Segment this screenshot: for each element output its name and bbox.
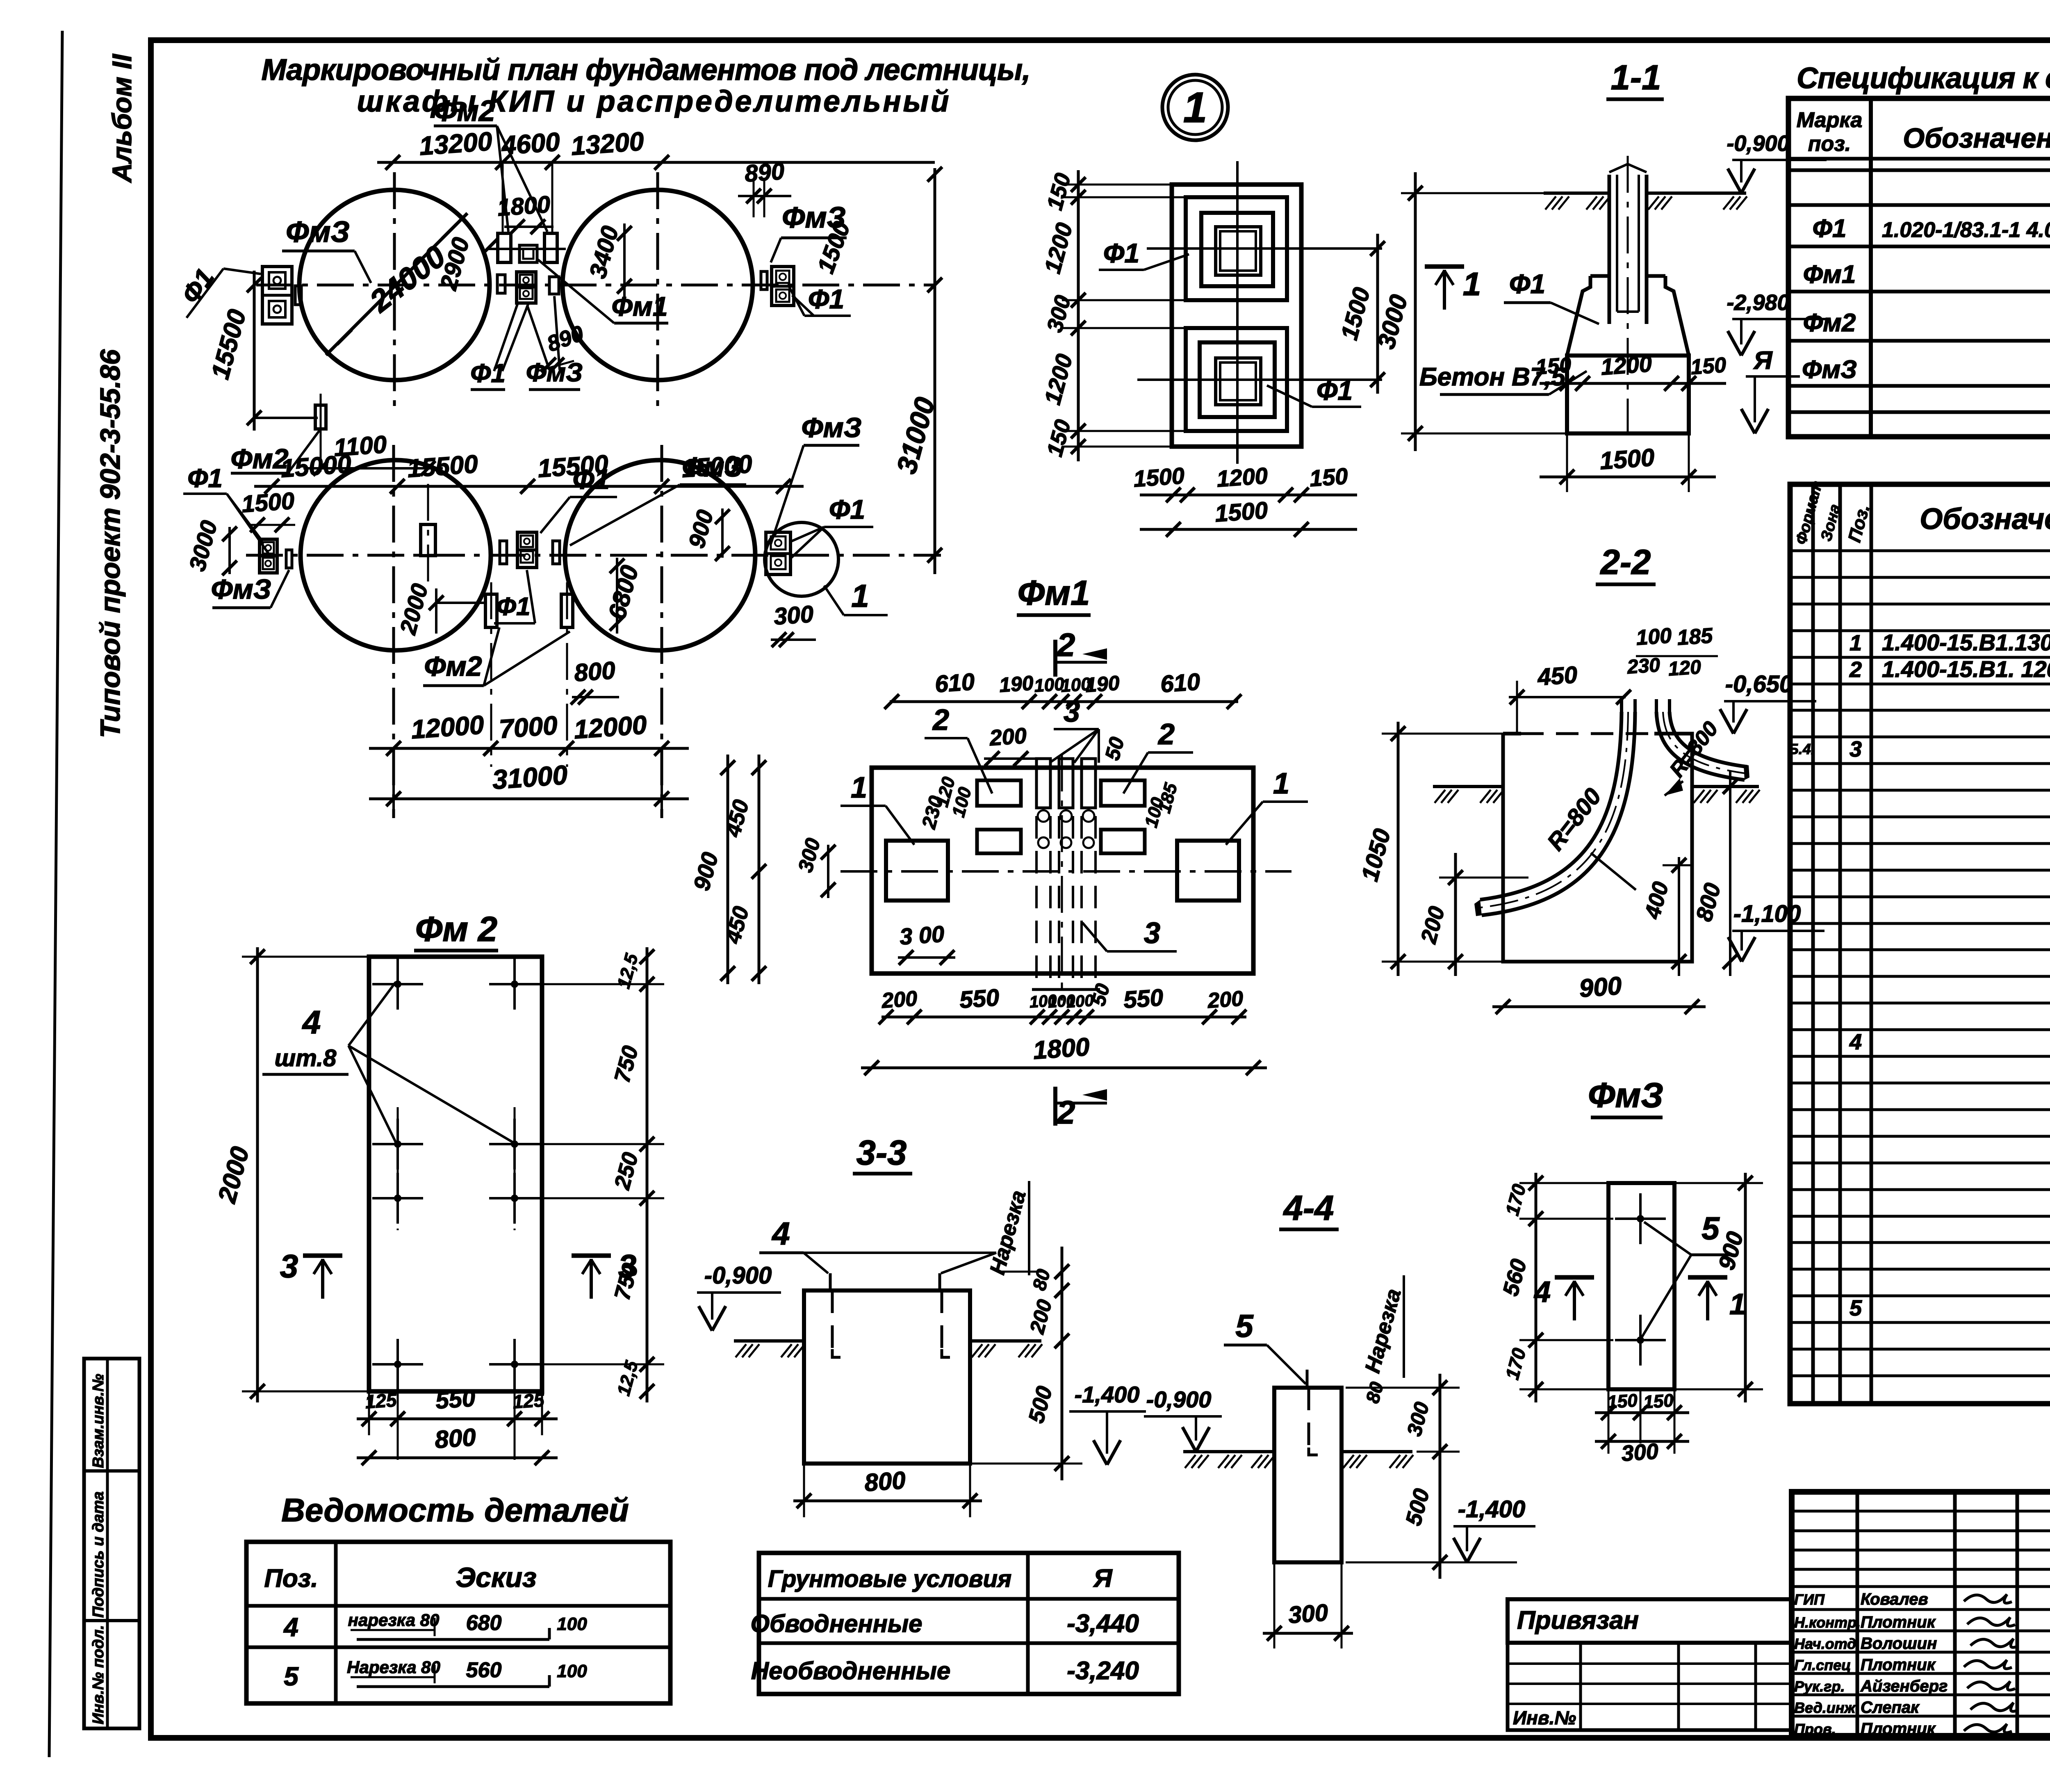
tank circle row2 left [301, 460, 491, 650]
svg-text:Гл.спец: Гл.спец [1794, 1657, 1851, 1673]
svg-text:-1,400: -1,400 [1458, 1496, 1525, 1523]
svg-text:Фм1: Фм1 [611, 291, 667, 321]
svg-text:120: 120 [1667, 656, 1702, 680]
1-1 bottom dim 1500 [1540, 476, 1716, 479]
svg-text:ФмЗ: ФмЗ [211, 574, 271, 605]
svg-text:ФмЗ: ФмЗ [1588, 1076, 1663, 1115]
margin table inv numbers [84, 1359, 139, 1728]
2-2 ground with hatch [1433, 785, 1503, 788]
Fm3 bottom dim 300 [1595, 1440, 1689, 1443]
1-1 bottom dim 150 1200 150 [1540, 382, 1726, 385]
svg-text:3 00: 3 00 [899, 921, 945, 949]
svg-text:3: 3 [1064, 695, 1080, 728]
svg-text:5: 5 [1701, 1210, 1720, 1246]
balloon 1 [1162, 75, 1228, 140]
centerline row2 horizontal [246, 554, 941, 557]
1-1 foundation slab [1567, 356, 1689, 433]
svg-text:1: 1 [851, 771, 867, 804]
svg-text:1: 1 [1273, 767, 1289, 800]
svg-text:1.400-15.В1.130-54: 1.400-15.В1.130-54 [1882, 629, 2050, 655]
svg-text:13200: 13200 [418, 126, 493, 161]
section mark 1 arrow left [1425, 264, 1464, 269]
svg-text:Ф1: Ф1 [187, 463, 223, 493]
detail circle 1 [765, 522, 838, 596]
svg-text:550: 550 [435, 1385, 476, 1414]
svg-text:Фм2: Фм2 [424, 651, 482, 682]
3-3 right dim chain [1061, 1247, 1064, 1480]
svg-text:800: 800 [863, 1466, 907, 1497]
svg-text:-0,650: -0,650 [1725, 671, 1793, 698]
spec table grid [1788, 98, 2050, 437]
plan1 outer rect [1172, 185, 1301, 447]
sheet edge line left [49, 31, 62, 1757]
svg-text:ФмЗ: ФмЗ [526, 358, 583, 387]
svg-text:-0,900: -0,900 [1727, 131, 1789, 156]
4-4 anchor bolt dashed [1307, 1388, 1310, 1448]
Fm1 right anchor square [1177, 841, 1239, 901]
svg-text:1800: 1800 [1032, 1033, 1090, 1065]
svg-text:ГИП: ГИП [1794, 1591, 1825, 1608]
svg-text:3: 3 [280, 1248, 298, 1284]
svg-text:300: 300 [1287, 1599, 1329, 1629]
svg-text:2-2: 2-2 [1600, 543, 1651, 582]
4-4 right dim chain [1439, 1374, 1442, 1579]
svg-text:Марка: Марка [1797, 108, 1863, 132]
svg-text:поз.: поз. [1808, 132, 1851, 156]
svg-text:ФмЗ: ФмЗ [801, 412, 861, 443]
svg-text:4600: 4600 [500, 127, 561, 160]
svg-text:2: 2 [1849, 657, 1862, 682]
Fm3 section marks [1555, 1275, 1594, 1280]
4-4 bottom dim 300 [1263, 1632, 1353, 1635]
Fm3 right dim 900 [1744, 1173, 1747, 1402]
svg-text:15500: 15500 [537, 450, 609, 483]
3-3 ground with hatch [734, 1339, 804, 1343]
svg-text:100: 100 [1635, 624, 1673, 650]
2-2 left dim 1050 [1397, 722, 1400, 976]
svg-text:800: 800 [434, 1423, 477, 1454]
svg-text:Взам.инв.№: Взам.инв.№ [90, 1374, 107, 1468]
Fm1 left anchor square [886, 841, 948, 901]
svg-text:Нач.отд: Нач.отд [1794, 1635, 1856, 1652]
svg-text:1500: 1500 [1132, 463, 1185, 492]
svg-text:13200: 13200 [570, 126, 645, 161]
plan1 right dim 1500 [1376, 234, 1379, 394]
Fm1 small plates second row [977, 830, 1021, 853]
Fm2 bottom dims 125 550 125 [368, 1391, 370, 1435]
2-2 curved pipe left [1480, 712, 1622, 900]
svg-text:125: 125 [364, 1389, 398, 1412]
svg-text:Фм2: Фм2 [434, 95, 495, 128]
svg-text:2: 2 [1157, 718, 1175, 751]
svg-text:4: 4 [1533, 1276, 1551, 1309]
Fm1 vertical centerline [1061, 755, 1063, 1001]
svg-text:31000: 31000 [491, 759, 569, 795]
svg-text:Типовой проект 902-3-55.86: Типовой проект 902-3-55.86 [95, 349, 126, 738]
Fm1 horizontal centerline [840, 870, 1291, 873]
svg-text:450: 450 [1536, 661, 1578, 691]
svg-text:1: 1 [1729, 1288, 1746, 1321]
lone Fm2 rect above row2 left circle [421, 524, 435, 556]
Fm2 bottom dim 800 [357, 1457, 558, 1459]
svg-text:Привязан: Привязан [1517, 1606, 1639, 1635]
svg-text:шт.8: шт.8 [275, 1045, 337, 1072]
svg-text:12000: 12000 [410, 710, 485, 744]
Fm1 bottom dim chain 200 550 100 100 100 550 200 [881, 1016, 1246, 1019]
row2 bottom dim 12000 7000 12000 [369, 747, 689, 750]
svg-text:Я: Я [1753, 347, 1773, 375]
3-3 bottom dim 800 [793, 1500, 982, 1502]
centerline row1 verticals [393, 172, 396, 414]
svg-text:1: 1 [1850, 631, 1862, 655]
svg-text:150: 150 [1690, 353, 1727, 379]
svg-text:-3,440: -3,440 [1067, 1610, 1139, 1638]
svg-text:4-4: 4-4 [1283, 1189, 1334, 1228]
svg-text:Плотник: Плотник [1861, 1720, 1936, 1738]
Fm2 rectangle [369, 957, 542, 1391]
svg-text:125: 125 [512, 1389, 546, 1412]
3-3 anchor bolts dashed [831, 1290, 834, 1349]
Fm2 bolt crosses [372, 983, 423, 985]
plan1 upper square set F1 [1186, 197, 1287, 300]
vedomost table [246, 1542, 670, 1703]
svg-text:Нарезка 80: Нарезка 80 [347, 1657, 440, 1677]
Fm2 section marks 3 [303, 1254, 342, 1258]
row1 right foundation group [772, 267, 794, 306]
svg-text:Необводненные: Необводненные [751, 1657, 950, 1685]
svg-text:610: 610 [934, 668, 975, 698]
svg-text:2: 2 [1056, 1094, 1075, 1131]
svg-text:3: 3 [618, 1248, 637, 1284]
1-1 column pipe [1608, 175, 1611, 324]
svg-text:Спецификация к схеме расположе: Спецификация к схеме расположения фундам… [1797, 62, 2050, 95]
svg-text:-0,900: -0,900 [1146, 1386, 1212, 1412]
svg-text:-3,240: -3,240 [1067, 1657, 1139, 1685]
plan1 horizontal centerlines [1147, 247, 1382, 250]
dim 31000 vertical right [934, 168, 936, 574]
svg-text:ФмЗ: ФмЗ [286, 216, 350, 249]
row2 left foundation group [260, 539, 277, 573]
svg-text:100: 100 [557, 1661, 587, 1681]
svg-text:900: 900 [1578, 972, 1623, 1003]
svg-text:Ведомость деталей: Ведомость деталей [281, 1492, 629, 1528]
Fm1 center channels dashed [1036, 759, 1050, 808]
row1 cluster Fm1 double square [517, 272, 536, 303]
soil conditions table [759, 1553, 1179, 1694]
svg-text:300: 300 [1621, 1439, 1659, 1466]
svg-text:1-1: 1-1 [1611, 58, 1661, 97]
plan1 vertical centerline [1236, 161, 1239, 464]
title block outline [1792, 1492, 2050, 1736]
row2 bottom dim 31000 [369, 798, 689, 800]
svg-text:300: 300 [773, 601, 814, 630]
svg-text:150: 150 [1643, 1390, 1674, 1412]
svg-text:ФмЗ: ФмЗ [1802, 356, 1857, 384]
Fm3 bolt crosses [1615, 1217, 1666, 1220]
svg-text:5: 5 [284, 1662, 299, 1691]
svg-text:1.400-15.В1. 120-18: 1.400-15.В1. 120-18 [1882, 656, 2050, 682]
svg-text:3: 3 [1144, 917, 1160, 950]
centerline row2 verticals [392, 445, 395, 818]
svg-text:Н.контр.: Н.контр. [1794, 1614, 1861, 1631]
svg-text:Плотник: Плотник [1861, 1613, 1936, 1631]
svg-text:Фм2: Фм2 [1803, 309, 1856, 337]
Fm1 top dim chain 610 190 100 100 190 610 [890, 700, 1238, 703]
svg-text:4: 4 [302, 1004, 321, 1040]
svg-text:Фм1: Фм1 [1018, 574, 1090, 613]
Fm2 left dim 2000 [256, 947, 259, 1402]
dim row1 top 13200 4600 13200 [377, 161, 935, 164]
2-2 bottom dim 900 [1492, 1005, 1706, 1008]
tank circle row2 right [565, 460, 755, 650]
3-3 foundation rect [804, 1290, 970, 1464]
svg-text:Обозначение: Обозначение [1920, 503, 2050, 536]
svg-text:Ф1: Ф1 [1509, 269, 1545, 299]
svg-text:Альбом II: Альбом II [107, 53, 137, 183]
svg-text:190: 190 [998, 671, 1034, 697]
1-1 ground line with hatch [1544, 192, 1609, 195]
Fm3 rectangle [1608, 1183, 1674, 1389]
row2 right foundation group [766, 532, 790, 575]
svg-text:Вед.инж: Вед.инж [1794, 1699, 1856, 1716]
svg-text:100: 100 [557, 1614, 587, 1634]
svg-text:Я: Я [1093, 1564, 1113, 1593]
svg-text:800: 800 [573, 657, 616, 687]
svg-text:Пров.: Пров. [1794, 1721, 1836, 1737]
svg-text:Инв.№: Инв.№ [1513, 1707, 1576, 1728]
Fm1 bottom dim 1800 [861, 1067, 1267, 1069]
svg-text:3-3: 3-3 [856, 1133, 907, 1172]
svg-text:15000: 15000 [681, 450, 753, 483]
svg-text:2: 2 [932, 704, 949, 736]
svg-text:150: 150 [1309, 463, 1349, 491]
svg-text:230: 230 [1626, 654, 1661, 678]
svg-text:-0,900: -0,900 [704, 1262, 772, 1289]
svg-text:4: 4 [771, 1215, 790, 1252]
svg-text:2: 2 [1056, 627, 1075, 663]
svg-text:1800: 1800 [497, 191, 551, 221]
svg-text:нарезка 80: нарезка 80 [348, 1610, 440, 1630]
svg-text:185: 185 [1676, 624, 1714, 650]
svg-text:Б.4.: Б.4. [1788, 741, 1815, 757]
svg-text:1.020-1/83.1-1 4.0.0: 1.020-1/83.1-1 4.0.0 [1882, 218, 2050, 242]
svg-text:1: 1 [851, 578, 869, 614]
lone Fm2 rect number1 [315, 405, 326, 429]
svg-text:Фм1: Фм1 [1803, 260, 1856, 289]
plan1 bottom dims [1140, 494, 1357, 497]
4-4 foundation column [1274, 1388, 1342, 1562]
svg-text:1100: 1100 [333, 431, 387, 462]
svg-text:Ф1: Ф1 [829, 494, 865, 524]
svg-text:200: 200 [989, 723, 1027, 750]
svg-text:1500: 1500 [1214, 497, 1269, 527]
svg-text:1: 1 [1463, 266, 1481, 302]
svg-text:Айзенберг: Айзенберг [1860, 1677, 1947, 1695]
svg-text:12000: 12000 [573, 710, 648, 744]
svg-text:150: 150 [1607, 1390, 1638, 1412]
svg-text:Ф1: Ф1 [808, 284, 844, 314]
row1 middle foundation cluster upper row [498, 233, 511, 262]
svg-text:Обозначение: Обозначение [1903, 123, 2050, 154]
svg-text:Плотник: Плотник [1861, 1656, 1936, 1674]
svg-text:Фм 2: Фм 2 [415, 910, 497, 949]
svg-text:560: 560 [466, 1658, 502, 1682]
svg-text:190: 190 [1084, 671, 1120, 697]
svg-text:Слепак: Слепак [1861, 1699, 1920, 1717]
svg-text:200: 200 [1207, 987, 1244, 1013]
diameter 24000 annotation row1 left circle [326, 213, 467, 355]
parts table grid [1790, 484, 2050, 1404]
1-1 foundation trapezoid [1567, 276, 1590, 356]
tank circle row1 right [563, 190, 753, 380]
svg-text:Подпись и дата: Подпись и дата [90, 1491, 107, 1618]
centerline row1 horizontal [256, 284, 935, 287]
2-2 curved pipe right [1656, 712, 1745, 780]
svg-text:7000: 7000 [498, 710, 558, 744]
svg-text:1500: 1500 [1599, 443, 1656, 474]
svg-text:610: 610 [1159, 668, 1201, 698]
svg-text:1: 1 [1183, 84, 1207, 132]
svg-text:Ф1: Ф1 [1103, 238, 1139, 268]
svg-text:Эскиз: Эскиз [456, 1562, 536, 1593]
svg-text:1200: 1200 [1216, 463, 1269, 492]
svg-text:Ковалев: Ковалев [1861, 1590, 1928, 1608]
row2 Fm2 rects [485, 594, 497, 627]
4-4 ground with hatch [1183, 1450, 1274, 1453]
svg-text:4: 4 [1849, 1030, 1862, 1054]
svg-text:550: 550 [1123, 984, 1164, 1014]
svg-text:680: 680 [466, 1611, 502, 1635]
Fm1 left dim chain [758, 755, 761, 984]
1-1 left dim 3000 [1414, 172, 1417, 451]
2-2 left dim 200 [1454, 853, 1457, 976]
svg-text:1200: 1200 [1600, 351, 1653, 380]
plan1 lower square set F1 [1186, 328, 1287, 431]
svg-text:Грунтовые условия: Грунтовые условия [768, 1566, 1011, 1592]
svg-text:550: 550 [959, 984, 1000, 1014]
row2 top dim line 15000 15500 15500 15000 [254, 485, 804, 488]
2-2 foundation block outline [1503, 734, 1692, 962]
tank circle row1 left [299, 190, 490, 380]
svg-text:150: 150 [1535, 353, 1572, 379]
svg-text:Волошин: Волошин [1861, 1635, 1937, 1653]
svg-text:Обводненные: Обводненные [750, 1610, 922, 1637]
svg-text:1500: 1500 [241, 488, 295, 518]
svg-text:-2,980: -2,980 [1727, 290, 1789, 315]
svg-text:Поз.: Поз. [264, 1564, 318, 1593]
dim 15500 row1 left vertical [253, 271, 256, 431]
svg-text:Инв.№ подл.: Инв.№ подл. [90, 1625, 107, 1724]
row2 mid cluster [517, 532, 537, 568]
svg-text:Фм2: Фм2 [230, 443, 288, 474]
svg-text:Ф1: Ф1 [497, 593, 531, 621]
svg-text:200: 200 [881, 987, 918, 1013]
svg-text:Ф1: Ф1 [1317, 375, 1353, 406]
Fm2 right dim chain [646, 947, 649, 1402]
title block signature grid [1856, 1492, 1859, 1736]
2-2 pipe stubs top [1620, 699, 1623, 714]
svg-text:3: 3 [1850, 737, 1862, 761]
Fm1 outer rect [872, 768, 1253, 974]
svg-text:15500: 15500 [406, 450, 479, 483]
svg-text:5: 5 [1850, 1296, 1862, 1320]
Fm3 left dim chain [1535, 1173, 1537, 1402]
plan1 left dim chain [1077, 170, 1080, 461]
svg-text:-1,400: -1,400 [1075, 1382, 1140, 1407]
row1 left foundation group F1 [262, 267, 292, 324]
privyazan box [1508, 1599, 1792, 1643]
Fm1 small plates top row [977, 780, 1021, 806]
svg-text:Ф1: Ф1 [470, 358, 506, 388]
svg-text:5: 5 [1235, 1308, 1254, 1344]
svg-text:Маркировочный план фундаментов: Маркировочный план фундаментов под лестн… [261, 53, 1030, 87]
svg-text:Рук.гр.: Рук.гр. [1794, 1678, 1845, 1695]
Fm3 bottom dims 150 150 [1595, 1411, 1689, 1414]
svg-text:Ф1: Ф1 [1813, 214, 1847, 243]
privyazan grid below [1508, 1643, 1792, 1730]
svg-text:4: 4 [283, 1612, 298, 1642]
